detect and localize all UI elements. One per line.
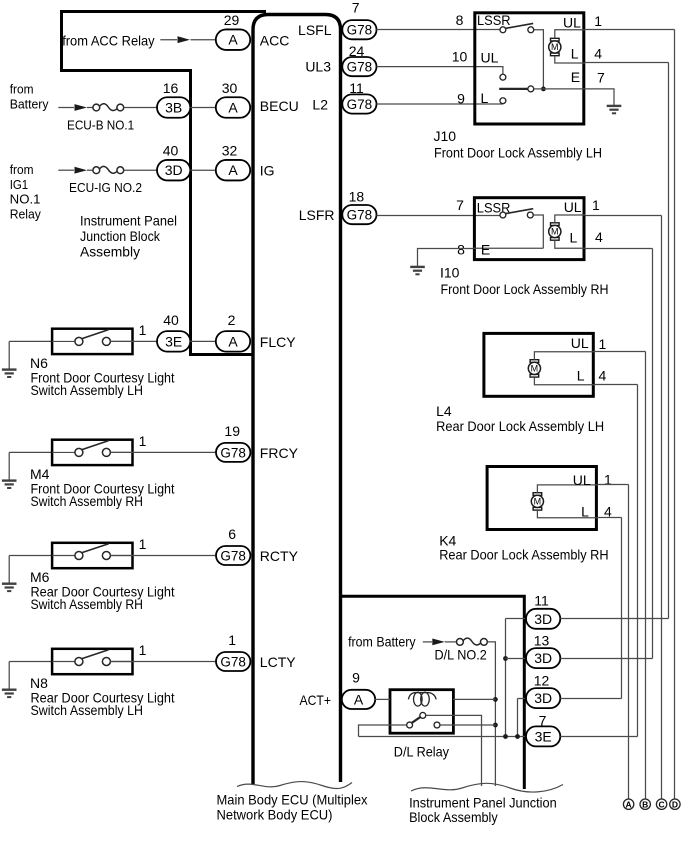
wire arrow to fuse xyxy=(87,107,93,109)
relay coil xyxy=(408,693,436,700)
svg-text:B: B xyxy=(642,799,648,809)
svg-text:Switch Assembly RH: Switch Assembly RH xyxy=(31,493,144,509)
wire to ground xyxy=(8,556,10,584)
svg-text:Relay: Relay xyxy=(10,207,42,222)
svg-text:D/L Relay: D/L Relay xyxy=(394,744,449,760)
svg-text:L: L xyxy=(570,229,578,245)
wire bus A (K4 UL) xyxy=(628,485,630,800)
relay contact (to battery) xyxy=(434,722,440,728)
switch N6 (door courtesy light switch) xyxy=(52,329,134,354)
svg-text:Front Door Lock Assembly RH: Front Door Lock Assembly RH xyxy=(441,281,609,297)
I10 switch contact (pin 7) xyxy=(500,212,506,218)
svg-text:3D: 3D xyxy=(534,650,552,666)
svg-text:1: 1 xyxy=(139,536,147,552)
wire IG1 feed tail xyxy=(58,169,74,171)
svg-text:I10: I10 xyxy=(440,265,460,281)
svg-text:G78: G78 xyxy=(220,655,246,670)
svg-text:G78: G78 xyxy=(347,60,373,75)
wire ACC relay feed tail xyxy=(160,39,177,41)
svg-text:13: 13 xyxy=(534,633,550,649)
svg-text:D/L NO.2: D/L NO.2 xyxy=(435,647,487,663)
ground N6 xyxy=(2,370,17,377)
svg-text:M: M xyxy=(534,497,542,507)
svg-text:Assembly: Assembly xyxy=(80,243,140,259)
svg-text:Block Assembly: Block Assembly xyxy=(409,809,498,825)
J10 common lever (E) xyxy=(499,88,528,90)
I10 switch contact xyxy=(527,212,533,218)
relay contact (to 3E) xyxy=(407,722,413,728)
relay D/L Relay box xyxy=(390,690,453,734)
wire bus to 3D pin 13 xyxy=(506,658,527,660)
svg-text:7: 7 xyxy=(597,69,605,85)
svg-text:1: 1 xyxy=(228,632,236,648)
svg-text:UL: UL xyxy=(571,335,589,351)
wire drop to 3D pin 12 xyxy=(518,698,527,700)
svg-text:IG: IG xyxy=(260,163,275,179)
wire K4 UL pin1 to bus A xyxy=(598,484,629,486)
svg-text:8: 8 xyxy=(457,242,465,258)
svg-text:G78: G78 xyxy=(347,97,373,112)
junction block bottom break (wavy) xyxy=(411,783,563,792)
wire motor to L pin 4 xyxy=(537,510,598,518)
node D (inter-page connector) xyxy=(670,799,680,809)
svg-text:1: 1 xyxy=(139,322,147,338)
wire 3D pin13 to I10 L bus xyxy=(560,658,652,660)
Main Body ECU block outline xyxy=(253,15,341,785)
svg-text:ECU-B NO.1: ECU-B NO.1 xyxy=(67,117,134,132)
junction battery/coil xyxy=(493,697,498,702)
svg-text:40: 40 xyxy=(163,143,179,159)
wire relay common down xyxy=(426,715,482,786)
arrow battery feed xyxy=(75,104,88,111)
svg-text:Front Door Lock Assembly LH: Front Door Lock Assembly LH xyxy=(434,144,602,160)
svg-text:L2: L2 xyxy=(312,97,328,113)
svg-text:1: 1 xyxy=(139,433,147,449)
wire 3D pin12 to K4 L bus xyxy=(560,698,621,700)
svg-text:from: from xyxy=(10,82,34,97)
svg-text:Battery: Battery xyxy=(10,97,49,112)
fuse ECU-IG NO.2 xyxy=(93,166,124,173)
wire relay contact to 3E net xyxy=(359,725,391,737)
wire arrow to connector A pin 29 xyxy=(191,39,216,41)
arrow ACC feed xyxy=(178,36,191,43)
wire relay contact to battery junction xyxy=(440,724,495,726)
wire LSFR to I10 pin 7 xyxy=(377,215,500,217)
wire motor to UL pin 1 xyxy=(537,485,598,493)
wire relay net to 3E pin 7 xyxy=(359,736,527,738)
J10 UL contact xyxy=(500,74,506,80)
wire J10 switch to junction xyxy=(534,30,544,89)
wire junction to E pin 7 xyxy=(543,88,585,90)
svg-text:A: A xyxy=(228,162,238,178)
junction 3E7 xyxy=(503,734,508,739)
wire bus D (J10 UL) xyxy=(674,30,676,800)
junction battery/contact xyxy=(493,723,498,728)
ground M6 xyxy=(2,584,17,591)
svg-text:M: M xyxy=(551,42,559,52)
wire motor to L pin 4 xyxy=(555,56,586,63)
wire I10 switch to E xyxy=(533,215,543,248)
svg-text:9: 9 xyxy=(352,670,360,686)
relay switch lever xyxy=(412,717,421,723)
svg-text:RCTY: RCTY xyxy=(260,548,299,564)
wire motor to UL pin 1 xyxy=(534,352,594,360)
connector A pin 32 (IG) xyxy=(216,160,250,181)
svg-text:LCTY: LCTY xyxy=(260,654,296,670)
svg-text:4: 4 xyxy=(594,46,602,62)
K4 door lock motor M xyxy=(531,493,543,510)
svg-text:L: L xyxy=(581,504,589,520)
svg-text:UL: UL xyxy=(573,472,591,488)
connector A pin 2 (FLCY) xyxy=(216,331,250,352)
svg-text:UL: UL xyxy=(563,14,581,30)
svg-text:Main Body ECU (Multiplex: Main Body ECU (Multiplex xyxy=(217,792,368,808)
svg-text:7: 7 xyxy=(456,197,464,213)
wire I10 L to 3D pin 13 xyxy=(652,249,654,659)
rear door lock assembly LH L4 box xyxy=(484,333,593,396)
wire ground to switch N8 xyxy=(9,661,52,663)
svg-text:from: from xyxy=(10,162,34,177)
svg-text:1: 1 xyxy=(139,642,147,658)
wire J10 L to 3D pin 11 xyxy=(668,63,670,619)
svg-text:4: 4 xyxy=(599,368,607,384)
wire I10 UL pin1 to bus C xyxy=(586,215,662,217)
wire J10 UL pin1 to bus D xyxy=(585,29,674,31)
front door lock assembly RH I10 box xyxy=(474,198,584,260)
Instrument Panel Junction Block Assembly outline (top-left) xyxy=(62,12,267,355)
wire switch to G78 xyxy=(111,661,217,663)
svg-text:E: E xyxy=(571,69,580,85)
J10 switch contact (pin 8) xyxy=(500,27,506,33)
svg-text:Junction Block: Junction Block xyxy=(80,228,161,244)
svg-text:30: 30 xyxy=(222,80,238,96)
svg-text:9: 9 xyxy=(457,90,465,106)
wire J10 E to ground xyxy=(585,89,614,105)
svg-text:LSFR: LSFR xyxy=(299,207,335,223)
wire arrow to fuse xyxy=(87,169,93,171)
switch M6 (door courtesy light switch) xyxy=(52,543,134,568)
connector 3B pin 16 xyxy=(157,97,190,118)
svg-text:3D: 3D xyxy=(534,690,552,706)
junction J10 E node xyxy=(541,87,546,92)
wire L2 to J10 pin 9 xyxy=(377,103,503,105)
ground N8 xyxy=(2,690,17,697)
node C (inter-page connector) xyxy=(656,799,666,809)
svg-text:G78: G78 xyxy=(347,23,373,38)
I10 door lock motor M xyxy=(549,223,561,240)
wire common contact to junction xyxy=(534,88,544,90)
wire 3D to A pin 32 xyxy=(190,169,216,171)
svg-text:A: A xyxy=(228,100,238,116)
wire to ground xyxy=(8,662,10,690)
wire ground to switch M4 xyxy=(9,451,52,453)
svg-text:Network Body ECU): Network Body ECU) xyxy=(217,806,333,822)
connector 3D pin 40 xyxy=(157,160,190,181)
junction 3D12/3E7 xyxy=(515,734,520,739)
svg-text:LSSR: LSSR xyxy=(477,12,511,28)
connector 3D pin 12 xyxy=(526,688,560,708)
wire bus to 3D pin 11 xyxy=(506,618,527,620)
svg-text:J10: J10 xyxy=(434,128,457,144)
svg-text:19: 19 xyxy=(224,423,240,439)
svg-text:A: A xyxy=(626,799,632,809)
svg-text:C: C xyxy=(659,799,665,809)
arrow battery feed xyxy=(432,639,445,646)
svg-text:40: 40 xyxy=(163,312,179,328)
wire L4 L to 3E pin 7 xyxy=(637,385,639,737)
wire fuse to 3B xyxy=(124,107,157,109)
wire internal bus 3D11-3E7 xyxy=(505,619,507,737)
connector 3D pin 13 xyxy=(526,648,560,668)
junction 3D13 xyxy=(503,656,508,661)
wire battery feed tail xyxy=(58,107,74,109)
connector G78 pin 11 (L2) xyxy=(342,94,376,113)
svg-text:3B: 3B xyxy=(165,100,182,116)
wire A pin9 to relay coil xyxy=(375,698,390,700)
front door lock assembly LH J10 box xyxy=(475,13,584,124)
svg-text:18: 18 xyxy=(349,189,365,205)
svg-text:M: M xyxy=(551,227,559,237)
wire relay coil to battery junction xyxy=(453,698,495,700)
switch M4 (door courtesy light switch) xyxy=(52,440,134,465)
svg-text:LSFL: LSFL xyxy=(298,22,332,38)
J10 common contact xyxy=(528,86,534,92)
connector 3E pin 40 xyxy=(157,331,190,352)
svg-text:L: L xyxy=(481,90,489,106)
wire bus B (L4 UL) xyxy=(645,352,647,800)
svg-text:29: 29 xyxy=(224,12,240,28)
svg-text:Rear Door Lock Assembly LH: Rear Door Lock Assembly LH xyxy=(436,418,604,434)
I10 lock position switch lever xyxy=(506,209,534,214)
wire motor to L pin 4 xyxy=(534,377,594,385)
fuse D/L NO.2 xyxy=(457,638,488,645)
relay common contact xyxy=(420,712,426,718)
node B (inter-page connector) xyxy=(640,799,650,809)
fuse ECU-B NO.1 xyxy=(93,104,124,111)
node A (inter-page connector) xyxy=(623,799,633,809)
rear door lock assembly RH K4 box xyxy=(487,467,596,530)
ground J10 E xyxy=(607,106,622,113)
svg-text:L4: L4 xyxy=(436,403,452,419)
svg-text:1: 1 xyxy=(592,197,600,213)
wire UL3 to J10 pin 10 xyxy=(377,67,503,75)
svg-text:3E: 3E xyxy=(165,333,182,349)
wire fuse to relay junctions xyxy=(487,642,495,786)
ground M4 xyxy=(2,481,17,488)
wire 3D12 drop xyxy=(517,699,519,737)
wire L4 UL pin1 to bus B xyxy=(595,351,646,353)
svg-text:FRCY: FRCY xyxy=(260,445,299,461)
wire motor to UL pin 1 xyxy=(555,30,586,39)
svg-text:M: M xyxy=(531,364,539,374)
svg-text:7: 7 xyxy=(352,0,360,15)
svg-text:Switch Assembly LH: Switch Assembly LH xyxy=(31,382,144,398)
wire 3E pin7 to L4 L bus xyxy=(560,736,637,738)
J10 door lock motor M xyxy=(549,38,561,55)
wire LSFL to J10 pin 8 xyxy=(377,29,500,31)
svg-text:UL: UL xyxy=(564,199,582,215)
connector A pin 9 (ACT+) xyxy=(342,690,375,709)
wire J10 L pin4 to bus xyxy=(585,62,668,64)
connector G78 pin 6 xyxy=(216,546,250,565)
wire ground to switch M6 xyxy=(9,555,52,557)
svg-text:Rear Door Lock Assembly RH: Rear Door Lock Assembly RH xyxy=(439,547,608,563)
Instrument Panel Junction Block Assembly outline (bottom-right) xyxy=(342,596,524,789)
svg-text:8: 8 xyxy=(456,12,464,28)
ECU bottom break (wavy) xyxy=(237,782,352,789)
wire ground to switch N6 xyxy=(9,340,52,342)
svg-text:E: E xyxy=(481,242,490,258)
wire to ground xyxy=(8,341,10,369)
svg-text:G78: G78 xyxy=(220,549,246,564)
svg-text:ECU-IG NO.2: ECU-IG NO.2 xyxy=(69,180,142,195)
svg-text:FLCY: FLCY xyxy=(260,334,296,350)
svg-text:G78: G78 xyxy=(347,208,373,223)
arrow IG1 feed xyxy=(75,167,88,174)
svg-text:3E: 3E xyxy=(535,728,552,744)
switch N8 (door courtesy light switch) xyxy=(52,649,134,674)
wire fuse to 3D xyxy=(124,169,157,171)
connector G78 pin 18 (LSFR) xyxy=(342,205,376,224)
L4 door lock motor M xyxy=(528,360,540,377)
svg-text:Instrument Panel: Instrument Panel xyxy=(80,213,177,229)
svg-text:D: D xyxy=(672,799,678,809)
wire 3D pin11 to J10 L bus xyxy=(560,618,668,620)
wire 3B to A pin 30 xyxy=(190,107,216,109)
wire switch to 3E xyxy=(111,340,158,342)
svg-text:from Battery: from Battery xyxy=(348,635,416,650)
wire battery feed tail xyxy=(423,641,432,643)
svg-text:from ACC Relay: from ACC Relay xyxy=(62,33,154,49)
wire 3E to A pin 2 xyxy=(190,340,216,342)
svg-text:6: 6 xyxy=(228,526,236,542)
svg-text:10: 10 xyxy=(452,49,468,65)
svg-text:A: A xyxy=(228,32,238,48)
svg-text:BECU: BECU xyxy=(260,98,299,114)
connector A pin 29 (ACC) xyxy=(216,29,250,50)
wire K4 L to 3D pin 12 xyxy=(621,518,623,699)
J10 switch contact xyxy=(528,27,534,33)
connector 3E pin 7 xyxy=(526,726,560,746)
svg-text:Switch Assembly LH: Switch Assembly LH xyxy=(31,702,144,718)
J10 L contact xyxy=(500,98,506,104)
wire L4 L pin4 to bus xyxy=(595,384,638,386)
svg-text:NO.1: NO.1 xyxy=(10,191,41,206)
svg-text:2: 2 xyxy=(228,312,236,328)
wire I10 E pin 8 xyxy=(473,247,543,249)
wire K4 L pin4 to bus xyxy=(598,517,622,519)
connector 3D pin 11 xyxy=(526,609,560,629)
svg-text:3D: 3D xyxy=(165,162,183,178)
svg-text:16: 16 xyxy=(163,80,179,96)
wire switch to G78 xyxy=(111,555,217,557)
wire I10 L pin4 to bus xyxy=(586,248,653,250)
wire bus C (I10 UL) xyxy=(661,216,663,800)
connector G78 pin 7 (LSFL) xyxy=(342,20,376,39)
J10 lock position switch lever xyxy=(506,23,534,28)
svg-text:1: 1 xyxy=(594,13,602,29)
svg-text:IG1: IG1 xyxy=(10,177,29,192)
wire motor to L pin 4 xyxy=(555,240,586,248)
connector A pin 30 (BECU) xyxy=(216,97,250,118)
wire arrow to fuse xyxy=(445,641,457,643)
svg-text:11: 11 xyxy=(534,593,549,609)
ground I10 E xyxy=(410,267,425,274)
wire switch to G78 xyxy=(111,451,217,453)
svg-text:12: 12 xyxy=(534,673,550,689)
svg-text:4: 4 xyxy=(595,229,603,245)
svg-text:ACT+: ACT+ xyxy=(300,692,332,708)
svg-text:3D: 3D xyxy=(534,611,552,627)
svg-text:G78: G78 xyxy=(220,445,246,460)
wire relay contact lead xyxy=(390,724,406,726)
connector G78 pin 1 xyxy=(216,652,250,671)
wire motor to UL pin 1 xyxy=(555,215,586,223)
wire I10 E to ground xyxy=(418,249,474,267)
svg-text:32: 32 xyxy=(222,143,238,159)
svg-text:A: A xyxy=(354,691,364,707)
svg-text:L: L xyxy=(571,46,579,62)
connector G78 pin 19 xyxy=(216,443,250,462)
svg-text:A: A xyxy=(228,333,238,349)
svg-text:Switch Assembly RH: Switch Assembly RH xyxy=(31,596,144,612)
wire to ground xyxy=(8,452,10,480)
svg-text:L: L xyxy=(577,367,585,383)
connector G78 pin 24 (UL3) xyxy=(342,57,376,76)
svg-text:UL3: UL3 xyxy=(305,59,331,75)
svg-text:ACC: ACC xyxy=(260,32,290,48)
svg-text:UL: UL xyxy=(481,50,499,66)
svg-text:1: 1 xyxy=(599,336,607,352)
